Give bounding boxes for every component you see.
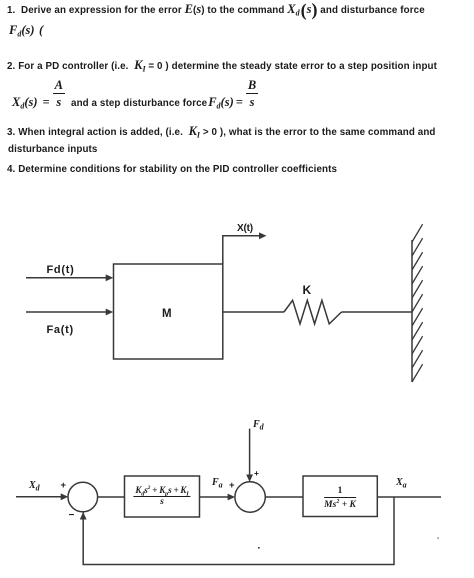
wire PID block to S2 [200, 496, 230, 498]
problem text line 6 [8, 144, 97, 156]
wall line [411, 240, 413, 382]
label Xa [396, 477, 407, 489]
wire S2 to plant block [265, 496, 303, 498]
PID block fraction [125, 476, 200, 517]
mass M box [114, 264, 223, 359]
arrowhead Fa(t) [106, 309, 114, 316]
PID controller block [125, 476, 200, 517]
wire S1 to PID block [98, 496, 125, 498]
summing junction S1 [68, 482, 98, 512]
wire spring to wall [342, 311, 413, 313]
wire Fd(t) input [26, 277, 107, 279]
wire mass to spring [223, 311, 284, 313]
arrowhead feedback into S1 bottom [80, 512, 87, 520]
label Fd top [253, 419, 264, 431]
wire Fd disturbance drop [249, 429, 251, 476]
problem text line 7 [7, 164, 337, 176]
problem text line 1 [7, 3, 425, 17]
wire X(t) takeoff [223, 236, 261, 264]
label Fa [212, 477, 223, 489]
label Xd [29, 480, 40, 492]
label minus at S1 [69, 510, 75, 522]
summing junction S2 [235, 482, 265, 512]
label plus into S2 top [254, 467, 259, 479]
problem text line 5 [7, 125, 436, 139]
problem text line 3 [7, 59, 437, 73]
wire Xd input [16, 496, 63, 498]
label X(t) [237, 223, 253, 235]
label plus at S1 [61, 480, 67, 492]
wire Fa(t) input [26, 311, 107, 313]
arrowhead Xd into S1 [61, 493, 68, 500]
label plus into S2 left [229, 480, 235, 492]
spring K [284, 300, 342, 324]
speck 2 [438, 538, 439, 539]
speck 1 [258, 547, 260, 549]
arrowhead into S2 left [228, 494, 236, 501]
problem text line 4 [0, 88, 258, 118]
arrowhead X(t) [259, 232, 267, 239]
label K [303, 284, 312, 296]
plant block [303, 476, 377, 517]
wall hatching [412, 224, 423, 382]
arrowhead Fd into S2 top [246, 475, 253, 483]
plant block fraction [303, 476, 377, 516]
label Fa(t) [47, 324, 74, 336]
label M [162, 308, 172, 320]
wire feedback path [83, 497, 394, 565]
problem text line 2 [9, 24, 43, 38]
wire plant output [377, 496, 441, 498]
arrowhead Fd(t) [106, 274, 114, 281]
label Fd(t) [47, 264, 75, 276]
